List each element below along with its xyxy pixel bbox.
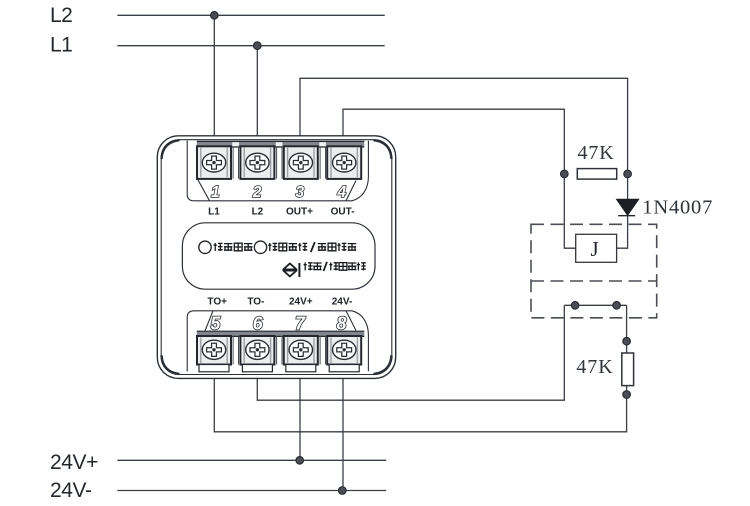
svg-text:L1: L1	[50, 34, 72, 57]
wire terminal 1 to L2	[213, 15, 215, 141]
terminal separator lines (top strip)	[233, 147, 325, 179]
svg-text:7: 7	[295, 314, 306, 334]
diode 1N4007	[617, 196, 714, 218]
svg-text:6: 6	[253, 314, 264, 334]
junction dot 24V+ / terminal7	[296, 457, 304, 465]
svg-text:24V+: 24V+	[289, 296, 313, 307]
logo divider bar	[298, 263, 300, 277]
outline corner bevel top-left	[162, 140, 180, 159]
junction dot bottom 47K top lead	[623, 337, 631, 345]
terminal 3 screw	[284, 146, 318, 179]
wire contact right through bottom 47K down to terminal 5 TO+	[214, 305, 626, 432]
relay contact terminal dot right	[613, 302, 621, 310]
wire contact left down to terminal 6 TO-	[257, 305, 564, 400]
wire diode cathode to relay coil J right pin	[617, 216, 628, 249]
dashed divider inside relay enclosure	[531, 280, 657, 282]
label 输出常亮/巡检闪亮 (output steady / patrol blink)	[268, 242, 356, 252]
relay contact terminal dot left	[571, 302, 579, 310]
wire terminal 8 to 24V-	[342, 372, 344, 491]
svg-text:L2: L2	[252, 206, 264, 217]
junction dot top 47K right	[624, 170, 632, 178]
bottom terminal strip background	[197, 331, 364, 370]
relay coil J	[576, 234, 617, 262]
resistor 47K (top, horizontal)	[577, 142, 616, 179]
module face top collar outline	[187, 141, 368, 201]
junction dot 24V- / terminal8	[339, 487, 347, 495]
svg-text:OUT+: OUT+	[286, 206, 313, 217]
svg-text:L2: L2	[50, 4, 72, 27]
center label plate	[182, 223, 375, 289]
terminal 4 screw	[327, 146, 361, 179]
junction dot top 47K left	[561, 170, 569, 178]
wire net L1 (second horizontal line)	[117, 45, 384, 47]
bottom terminal strip band	[197, 331, 364, 337]
wire net 24V- (bottom horizontal line)	[117, 490, 386, 492]
terminal 1 screw	[197, 146, 231, 179]
svg-text:24V-: 24V-	[50, 479, 92, 502]
terminal 5 screw	[197, 336, 231, 372]
terminal 6 screw	[240, 336, 274, 372]
wire 47K right junction to diode anode	[627, 174, 629, 199]
outline corner bevel top-right	[374, 140, 392, 159]
label 输入常亮 (input steady)	[214, 243, 253, 251]
outline corner bevel bottom-left	[162, 355, 180, 374]
label 输入/输出模块 (input/output module)	[304, 262, 366, 271]
wire net L2 (top horizontal line)	[117, 14, 384, 16]
wire net 24V+ (bottom horizontal line)	[117, 459, 386, 461]
svg-text:47K: 47K	[578, 142, 615, 164]
collar bevel diagonal bottom-right	[346, 311, 356, 331]
svg-text:24V+: 24V+	[50, 451, 98, 474]
svg-text:8: 8	[336, 314, 346, 334]
wire 47K left junction down to relay coil J left pin	[564, 174, 575, 248]
top terminal strip background	[197, 141, 364, 179]
brand diamond logo	[283, 263, 296, 276]
svg-text:2: 2	[252, 184, 262, 201]
module inner outline	[161, 140, 392, 375]
svg-text:1: 1	[211, 184, 220, 201]
outline corner bevel bottom-right	[374, 355, 392, 374]
svg-text:24V-: 24V-	[332, 296, 353, 307]
junction dot L2 / terminal1	[211, 12, 219, 20]
svg-text:TO+: TO+	[207, 296, 227, 307]
svg-text:L1: L1	[208, 206, 220, 217]
wire terminal 4 OUT- to top 47K left junction	[343, 109, 564, 170]
terminal 8 screw	[327, 336, 361, 372]
wire relay contact bar	[564, 304, 626, 306]
svg-text:1N4007: 1N4007	[642, 196, 713, 218]
svg-text:3: 3	[295, 184, 304, 201]
resistor 47K (bottom, vertical)	[576, 353, 633, 386]
svg-text:5: 5	[210, 314, 221, 334]
junction dot L1 / terminal2	[253, 42, 261, 50]
terminal 7 screw	[284, 336, 318, 372]
svg-text:4: 4	[336, 184, 346, 201]
collar bevel diagonal top-right	[346, 181, 356, 201]
wire terminal 2 to L1	[256, 46, 258, 141]
dashed relay enclosure box	[531, 224, 657, 317]
svg-text:47K: 47K	[576, 356, 613, 378]
wire terminal 3 OUT+ to top 47K right junction	[300, 78, 628, 170]
collar bevel diagonal top-left	[198, 179, 210, 201]
module outer outline	[157, 136, 395, 379]
top terminal strip band	[197, 141, 364, 147]
terminal separator lines (bottom strip)	[233, 336, 325, 364]
terminal 2 screw	[240, 146, 274, 179]
svg-text:OUT-: OUT-	[331, 206, 355, 217]
svg-text:TO-: TO-	[247, 296, 264, 307]
wire terminal 7 to 24V+	[299, 372, 301, 460]
LED input	[199, 241, 211, 253]
collar bevel diagonal bottom-left	[205, 311, 213, 331]
svg-text:J: J	[591, 237, 599, 261]
junction dot bottom 47K bottom lead	[623, 391, 631, 399]
LED output	[254, 241, 266, 253]
module face bottom collar outline	[187, 311, 368, 372]
